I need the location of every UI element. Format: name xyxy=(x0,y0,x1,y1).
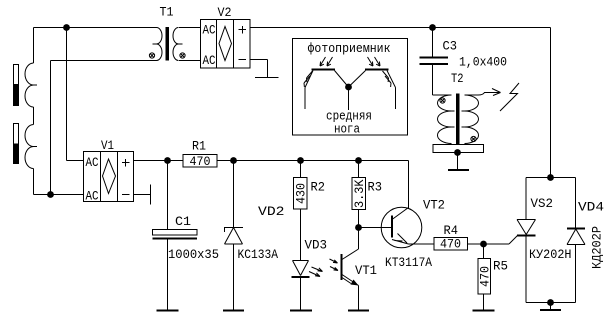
svg-text:1000x35: 1000x35 xyxy=(168,247,219,262)
svg-text:VD3: VD3 xyxy=(305,238,328,253)
svg-text:C1: C1 xyxy=(175,214,191,229)
svg-text:фотоприемник: фотоприемник xyxy=(308,41,391,56)
svg-text:VS2: VS2 xyxy=(531,196,554,211)
svg-text:C3: C3 xyxy=(443,39,458,54)
svg-text:R1: R1 xyxy=(192,139,206,154)
svg-text:470: 470 xyxy=(190,154,211,169)
svg-text:R3: R3 xyxy=(368,180,383,195)
svg-text:470: 470 xyxy=(478,266,493,287)
svg-text:КД202Р: КД202Р xyxy=(590,226,605,269)
svg-text:R2: R2 xyxy=(311,180,326,195)
svg-text:430: 430 xyxy=(294,183,309,204)
svg-text:AC: AC xyxy=(86,189,99,204)
svg-text:VD4: VD4 xyxy=(578,200,604,215)
svg-text:VD2: VD2 xyxy=(258,204,285,219)
svg-text:R5: R5 xyxy=(493,259,508,274)
svg-text:AC: AC xyxy=(86,155,99,170)
svg-text:T2: T2 xyxy=(451,71,464,86)
svg-text:AC: AC xyxy=(203,53,216,68)
svg-text:V2: V2 xyxy=(218,5,232,20)
svg-text:KC133A: KC133A xyxy=(238,247,279,262)
svg-text:нога: нога xyxy=(334,122,360,137)
svg-text:KT3117A: KT3117A xyxy=(385,255,432,270)
svg-text:1,0x400: 1,0x400 xyxy=(459,55,507,70)
svg-text:КУ202Н: КУ202Н xyxy=(529,247,572,262)
svg-text:VT1: VT1 xyxy=(355,263,377,278)
svg-text:T1: T1 xyxy=(160,5,174,20)
svg-text:V1: V1 xyxy=(101,138,114,153)
svg-text:3.3K: 3.3K xyxy=(352,179,367,208)
svg-text:AC: AC xyxy=(203,23,216,38)
svg-text:470: 470 xyxy=(440,237,461,252)
svg-text:VT2: VT2 xyxy=(423,198,445,213)
